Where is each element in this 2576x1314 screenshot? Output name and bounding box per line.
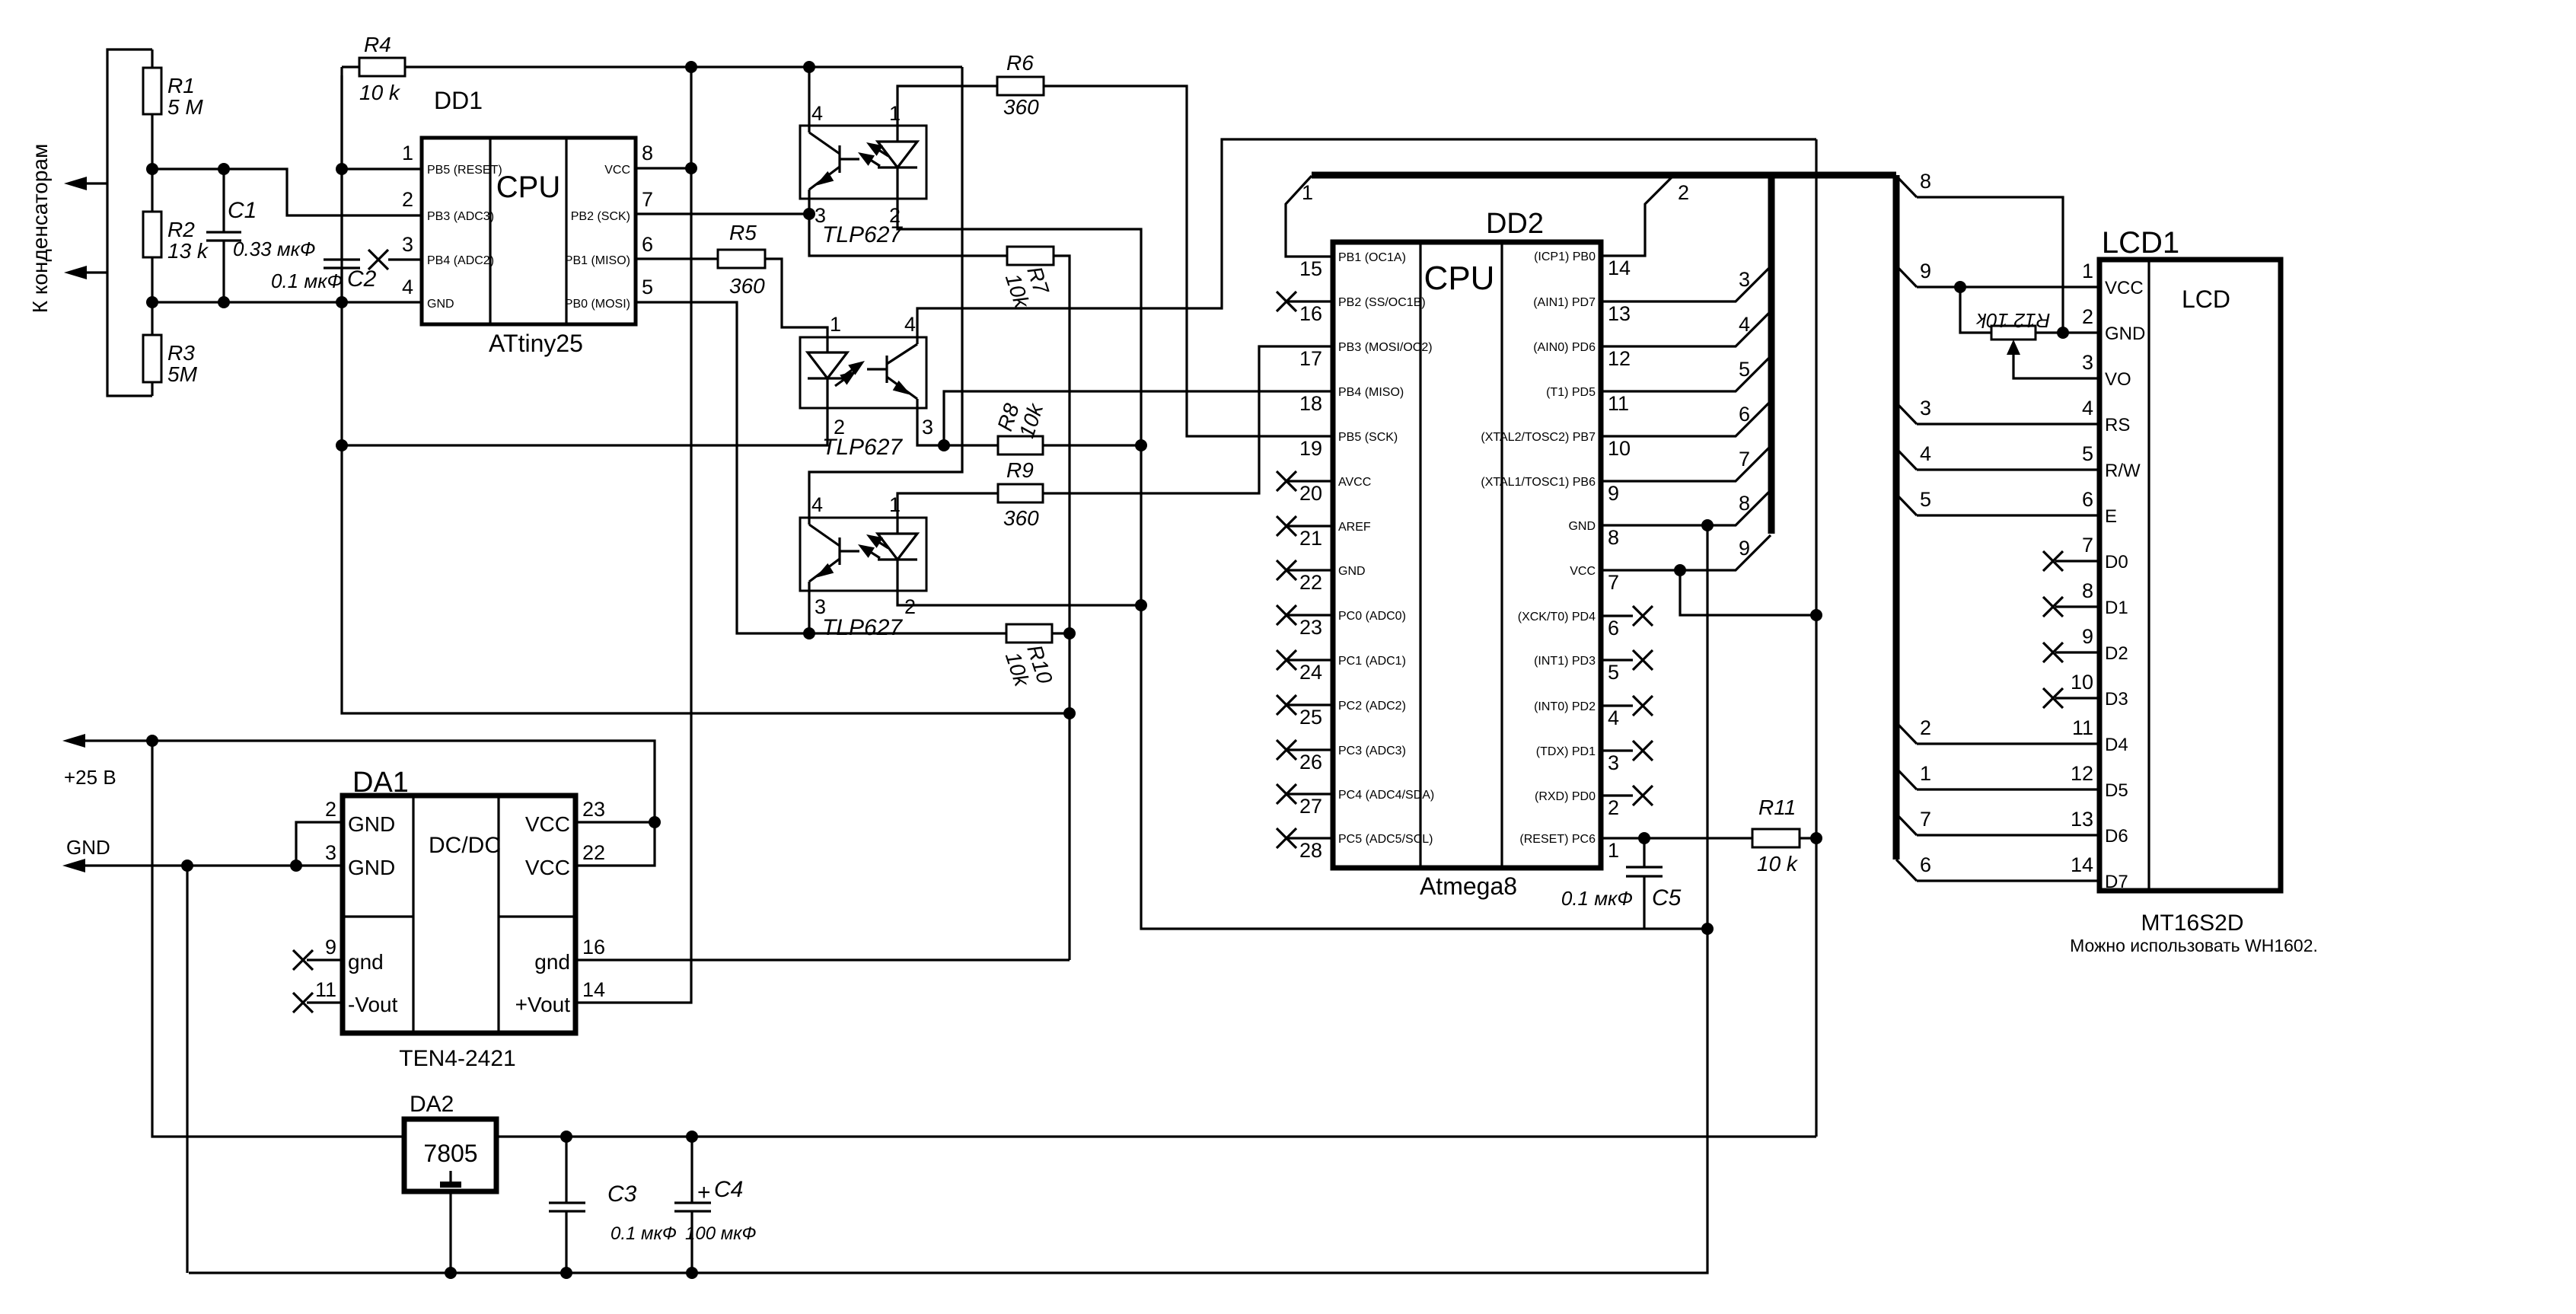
svg-text:16: 16 bbox=[1299, 302, 1322, 325]
svg-text:4: 4 bbox=[402, 276, 413, 298]
svg-text:DA1: DA1 bbox=[352, 767, 409, 799]
optocoupler U3 TLP627 bottom bbox=[800, 518, 926, 591]
svg-text:11: 11 bbox=[2072, 716, 2093, 739]
svg-text:DD2: DD2 bbox=[1486, 208, 1544, 240]
svg-text:PB3 (MOSI/OC2): PB3 (MOSI/OC2) bbox=[1338, 341, 1433, 354]
svg-text:5: 5 bbox=[1608, 661, 1619, 684]
wire DA1 gnd16 to opto pulldown net bbox=[575, 958, 1070, 961]
node +5V riser junction bbox=[1810, 609, 1822, 621]
svg-text:4: 4 bbox=[811, 493, 823, 516]
svg-text:8: 8 bbox=[1608, 526, 1619, 549]
svg-text:C3: C3 bbox=[607, 1182, 637, 1207]
wire opto1 pin2 to ground riser bbox=[897, 199, 1707, 929]
bus tap 9 to LCD bbox=[1896, 266, 1917, 287]
svg-text:1: 1 bbox=[1302, 181, 1313, 204]
svg-text:2: 2 bbox=[1608, 796, 1619, 819]
potentiometer R12 10k bbox=[1954, 281, 1966, 293]
svg-text:3: 3 bbox=[1739, 268, 1750, 291]
svg-text:9: 9 bbox=[325, 936, 336, 958]
svg-text:(ICP1) PB0: (ICP1) PB0 bbox=[1534, 250, 1596, 263]
wire opto2 pin2 LED cathode to sensor ground bbox=[342, 408, 827, 445]
node C3 top bbox=[560, 1131, 572, 1143]
svg-text:28: 28 bbox=[1299, 839, 1322, 862]
svg-text:D0: D0 bbox=[2105, 552, 2128, 572]
wire arrow К конденсаторам upper bbox=[84, 182, 107, 184]
svg-text:+25 В: +25 В bbox=[64, 766, 116, 789]
svg-text:(INT0) PD2: (INT0) PD2 bbox=[1534, 700, 1596, 713]
IC DD1 ATtiny25 block bbox=[422, 138, 636, 324]
svg-text:13: 13 bbox=[1608, 302, 1631, 325]
svg-text:ATtiny25: ATtiny25 bbox=[489, 330, 583, 357]
svg-text:8: 8 bbox=[1920, 170, 1931, 193]
svg-text:7: 7 bbox=[1608, 571, 1619, 594]
svg-text:5: 5 bbox=[642, 276, 653, 298]
wire DA1 pin 23 VCC bbox=[575, 821, 655, 823]
svg-text:PC4 (ADC4/SDA): PC4 (ADC4/SDA) bbox=[1338, 789, 1434, 802]
svg-text:3: 3 bbox=[922, 416, 933, 439]
DD1 pin 5 PB0 (MOSI) bbox=[636, 302, 809, 633]
svg-text:0.1 мкФ: 0.1 мкФ bbox=[1561, 887, 1633, 910]
wire tap 1 to LCD D5 bbox=[1917, 788, 2099, 790]
svg-text:13: 13 bbox=[2071, 808, 2093, 831]
svg-text:(AIN0) PD6: (AIN0) PD6 bbox=[1533, 341, 1596, 354]
svg-text:CPU: CPU bbox=[1424, 260, 1495, 297]
node opto2 emitter / MISO riser junction bbox=[938, 439, 950, 451]
bus tap 6 from DD2 right bbox=[1601, 401, 1771, 436]
svg-text:GND: GND bbox=[1338, 565, 1366, 578]
bus top horizontal bbox=[1312, 172, 1896, 179]
svg-text:(INT1) PD3: (INT1) PD3 bbox=[1534, 655, 1596, 668]
wire DD2 VCC to +5V riser bbox=[1680, 570, 1816, 615]
capacitor C2 bbox=[340, 75, 343, 260]
svg-text:PB5 (RESET): PB5 (RESET) bbox=[427, 164, 502, 177]
svg-text:D5: D5 bbox=[2105, 780, 2128, 801]
svg-text:RS: RS bbox=[2105, 415, 2130, 435]
wire tap 6 to LCD D7 bbox=[1917, 879, 2099, 882]
wire R5 to opto2 pin 1 bbox=[765, 259, 827, 337]
svg-text:1: 1 bbox=[1608, 839, 1619, 862]
node sensor gnd opto2 run bbox=[336, 439, 348, 451]
svg-text:360: 360 bbox=[729, 274, 765, 298]
capacitor C4 electrolytic bbox=[690, 1137, 693, 1203]
bus tap 4 to LCD bbox=[1896, 448, 1917, 470]
wire R10 leads bbox=[809, 632, 1006, 634]
svg-text:7: 7 bbox=[2082, 534, 2093, 557]
wire DA1 pin 2 GND loop bbox=[296, 822, 343, 866]
svg-text:D6: D6 bbox=[2105, 826, 2128, 847]
wire R9 right to DD2 pin 17 bbox=[1043, 346, 1333, 493]
svg-text:DA2: DA2 bbox=[410, 1092, 454, 1117]
svg-text:Можно использовать WH1602.: Можно использовать WH1602. bbox=[2070, 936, 2318, 955]
node opto3 emitter / MOSI junction bbox=[803, 627, 815, 639]
svg-text:13 k: 13 k bbox=[167, 239, 209, 263]
node R10 right junction bbox=[1063, 627, 1076, 639]
svg-text:26: 26 bbox=[1299, 751, 1322, 773]
svg-text:1: 1 bbox=[402, 142, 413, 164]
IC DA2 7805 block bbox=[404, 1119, 496, 1191]
svg-text:R12 10k: R12 10k bbox=[1975, 309, 2051, 332]
node sensor-ground junction riser bbox=[1063, 707, 1076, 719]
resistor R10 bbox=[1006, 624, 1052, 643]
svg-text:14: 14 bbox=[2071, 853, 2093, 876]
svg-text:0.1 мкФ: 0.1 мкФ bbox=[611, 1223, 677, 1244]
wire opto1 pin3 emitter to R7 (SCK node) bbox=[809, 199, 1007, 256]
svg-text:9: 9 bbox=[1608, 482, 1619, 505]
svg-text:1: 1 bbox=[889, 102, 901, 125]
capacitor C5 bbox=[1643, 838, 1645, 867]
wire +25V to 7805 input bbox=[152, 741, 404, 1137]
resistor R6 bbox=[997, 77, 1044, 95]
svg-text:LCD: LCD bbox=[2182, 285, 2230, 313]
svg-text:23: 23 bbox=[1299, 616, 1322, 639]
svg-text:VCC: VCC bbox=[604, 164, 630, 177]
svg-text:PC3 (ADC3): PC3 (ADC3) bbox=[1338, 745, 1406, 757]
capacitor C1 bbox=[222, 169, 225, 232]
svg-text:VCC: VCC bbox=[525, 812, 570, 836]
svg-text:23: 23 bbox=[582, 798, 605, 821]
svg-text:R6: R6 bbox=[1006, 51, 1034, 75]
svg-text:-Vout: -Vout bbox=[348, 993, 398, 1016]
node A junction R1-R2 bbox=[146, 163, 158, 175]
wire tap 5 to LCD E bbox=[1917, 514, 2099, 516]
resistor R2 bbox=[143, 212, 161, 257]
svg-text:R11: R11 bbox=[1758, 796, 1796, 819]
svg-text:LCD1: LCD1 bbox=[2102, 226, 2179, 260]
svg-text:10 k: 10 k bbox=[1757, 852, 1799, 875]
svg-text:2: 2 bbox=[325, 798, 336, 821]
svg-text:TLP627: TLP627 bbox=[822, 222, 903, 247]
svg-text:18: 18 bbox=[1299, 392, 1322, 415]
svg-text:AVCC: AVCC bbox=[1338, 476, 1371, 489]
svg-text:3: 3 bbox=[1608, 751, 1619, 774]
wire X mark DD1 pin 3 not connected bbox=[388, 258, 422, 260]
svg-text:2: 2 bbox=[1920, 716, 1931, 739]
wire +25V feed bbox=[82, 739, 152, 742]
svg-text:15: 15 bbox=[1299, 257, 1322, 280]
svg-text:gnd: gnd bbox=[534, 950, 570, 974]
IC DD2 Atmega8 block bbox=[1333, 242, 1601, 868]
wire opto3 pin2 LED cathode to ground riser bbox=[897, 589, 1141, 605]
DD1 pin 8 VCC bbox=[636, 167, 691, 169]
svg-text:(T1) PD5: (T1) PD5 bbox=[1546, 386, 1596, 399]
wire R6 to DD2 pin 19 SCK bbox=[1044, 86, 1333, 436]
bus tap 4 from DD2 right bbox=[1601, 311, 1771, 346]
wire opto2 pin4 collector to VCC net bbox=[917, 139, 1816, 337]
wire R7 right to pulldown riser bbox=[1054, 256, 1070, 960]
resistor R8 bbox=[998, 436, 1043, 454]
svg-text:R9: R9 bbox=[1006, 458, 1034, 482]
svg-text:TEN4-2421: TEN4-2421 bbox=[399, 1046, 515, 1071]
wire 7805 ground stub bbox=[449, 1191, 451, 1273]
svg-text:(RESET) PC6: (RESET) PC6 bbox=[1519, 833, 1596, 846]
svg-text:GND: GND bbox=[66, 836, 110, 859]
svg-text:12: 12 bbox=[1608, 347, 1631, 370]
node +25V junction bbox=[146, 735, 158, 747]
svg-text:R3: R3 bbox=[167, 341, 195, 365]
resistor R7 bbox=[1007, 247, 1054, 265]
svg-text:22: 22 bbox=[582, 841, 605, 864]
bus tap 6 to LCD bbox=[1896, 860, 1917, 881]
svg-text:3: 3 bbox=[402, 233, 413, 256]
svg-text:PB1 (MISO): PB1 (MISO) bbox=[565, 254, 630, 267]
svg-text:0.33 мкФ: 0.33 мкФ bbox=[233, 238, 316, 260]
node C5 top junction bbox=[1638, 832, 1650, 844]
wire opto1 pin4 to R4 line bbox=[808, 67, 810, 126]
wire node B to DD1 pin 4 GND bbox=[152, 301, 422, 303]
resistor R9 bbox=[998, 484, 1043, 502]
node DA1 VCC pin23 junction bbox=[649, 816, 661, 828]
bus tap 1 to LCD bbox=[1896, 768, 1917, 789]
wire +5V rail from 7805 bbox=[496, 1135, 1816, 1137]
wire opto3 pin4 collector to R4 net riser bbox=[809, 67, 962, 518]
svg-text:360: 360 bbox=[1003, 95, 1039, 119]
svg-text:C2: C2 bbox=[347, 266, 377, 292]
bus tap 1 to DD2 pin 15 bbox=[1286, 176, 1333, 257]
wire opto1 pin1 to R6 bbox=[897, 86, 997, 126]
svg-text:GND: GND bbox=[348, 812, 395, 836]
svg-text:VCC: VCC bbox=[525, 856, 570, 879]
svg-text:6: 6 bbox=[642, 233, 653, 256]
svg-text:27: 27 bbox=[1299, 795, 1322, 818]
svg-text:PB2 (SS/OC1B): PB2 (SS/OC1B) bbox=[1338, 296, 1426, 309]
svg-text:7: 7 bbox=[1920, 808, 1931, 831]
svg-text:R1: R1 bbox=[167, 74, 195, 97]
svg-text:8: 8 bbox=[2082, 579, 2093, 602]
svg-text:(XCK/T0) PD4: (XCK/T0) PD4 bbox=[1518, 611, 1596, 624]
svg-text:PC1 (ADC1): PC1 (ADC1) bbox=[1338, 655, 1406, 668]
LCD1 MT16S2D block bbox=[2099, 260, 2281, 891]
svg-text:2: 2 bbox=[1678, 181, 1689, 204]
wire tap 4 to LCD R/W bbox=[1917, 468, 2099, 470]
bus tap 3 to LCD bbox=[1896, 403, 1917, 424]
svg-text:10 k: 10 k bbox=[359, 81, 401, 104]
svg-text:4: 4 bbox=[1739, 313, 1750, 336]
svg-text:21: 21 bbox=[1299, 527, 1322, 550]
bus tap 2 to DD2 pin 14 bbox=[1601, 176, 1673, 256]
svg-text:AREF: AREF bbox=[1338, 521, 1371, 534]
bus vertical right of DD2 bbox=[1768, 175, 1775, 534]
wire bracket to external capacitors bbox=[107, 49, 152, 396]
wire tap 9 to LCD VCC bbox=[1917, 285, 2099, 288]
wire MISO riser to DD2 pin 18 bbox=[944, 391, 1333, 445]
svg-text:10: 10 bbox=[1608, 437, 1631, 460]
svg-text:8: 8 bbox=[1739, 492, 1750, 515]
svg-text:11: 11 bbox=[1608, 392, 1629, 415]
optocoupler U2 TLP627 middle bbox=[800, 337, 926, 408]
wire tap 8 to LCD GND via R12 node bbox=[1917, 197, 2063, 333]
svg-text:9: 9 bbox=[1920, 260, 1931, 282]
svg-text:+: + bbox=[697, 1180, 711, 1205]
wire arrow К конденсаторам lower bbox=[84, 271, 107, 273]
svg-text:2: 2 bbox=[904, 595, 916, 618]
svg-text:+Vout: +Vout bbox=[515, 993, 571, 1016]
bus tap 3 from DD2 right bbox=[1601, 266, 1771, 301]
svg-text:360: 360 bbox=[1003, 506, 1039, 530]
svg-text:25: 25 bbox=[1299, 706, 1322, 729]
svg-text:3: 3 bbox=[2082, 351, 2093, 374]
svg-text:100 мкФ: 100 мкФ bbox=[685, 1223, 757, 1244]
svg-text:4: 4 bbox=[1608, 706, 1619, 729]
svg-text:8: 8 bbox=[642, 142, 653, 164]
optocoupler U1 TLP627 top bbox=[800, 126, 926, 199]
svg-text:3: 3 bbox=[1920, 397, 1931, 419]
svg-text:К конденсаторам: К конденсаторам bbox=[28, 144, 52, 314]
svg-text:5M: 5M bbox=[167, 362, 198, 386]
svg-text:14: 14 bbox=[582, 978, 605, 1001]
resistor R1 bbox=[151, 49, 153, 68]
node DD2 GND wire junction bbox=[1701, 519, 1714, 531]
wire GND feed bbox=[82, 864, 187, 866]
svg-text:5: 5 bbox=[1739, 358, 1750, 381]
svg-text:R2: R2 bbox=[167, 218, 195, 241]
svg-text:PC0 (ADC0): PC0 (ADC0) bbox=[1338, 610, 1406, 623]
svg-text:4: 4 bbox=[2082, 397, 2093, 419]
wire opto2 pin3 emitter to R8 bbox=[917, 408, 998, 445]
node R4/opto1 pin4 junction bbox=[803, 61, 815, 73]
svg-text:PB1 (OC1A): PB1 (OC1A) bbox=[1338, 251, 1406, 264]
node DD2 VCC wire junction bbox=[1674, 564, 1686, 576]
svg-text:MT16S2D: MT16S2D bbox=[2141, 911, 2243, 936]
svg-text:gnd: gnd bbox=[348, 950, 384, 974]
node C4 bottom bbox=[686, 1267, 698, 1279]
svg-text:D1: D1 bbox=[2105, 598, 2128, 618]
wire tap 2 to LCD D4 bbox=[1917, 742, 2099, 745]
node DA1 GND junction bbox=[290, 860, 302, 872]
svg-text:5 М: 5 М bbox=[167, 95, 203, 119]
bus tap 2 to LCD bbox=[1896, 722, 1917, 744]
node sensor gnd C2 top bbox=[336, 296, 348, 308]
capacitor C3 bbox=[565, 1137, 567, 1203]
svg-text:GND: GND bbox=[427, 298, 454, 311]
svg-text:9: 9 bbox=[1739, 537, 1750, 560]
svg-text:1: 1 bbox=[889, 493, 901, 516]
svg-text:17: 17 bbox=[1299, 347, 1322, 370]
svg-text:D3: D3 bbox=[2105, 689, 2128, 710]
svg-text:DC/DC: DC/DC bbox=[429, 833, 501, 858]
svg-text:PB4 (MISO): PB4 (MISO) bbox=[1338, 386, 1404, 399]
node GND junction left bbox=[181, 860, 193, 872]
svg-text:(RXD) PD0: (RXD) PD0 bbox=[1535, 790, 1596, 803]
DD1 pin 1 PB5 (RESET) bbox=[342, 167, 422, 170]
svg-text:1: 1 bbox=[2082, 260, 2093, 282]
svg-text:VO: VO bbox=[2105, 369, 2131, 390]
bus tap 9 from DD2 right bbox=[1601, 535, 1771, 570]
svg-text:R4: R4 bbox=[364, 33, 391, 56]
svg-text:0.1 мкФ: 0.1 мкФ bbox=[271, 269, 343, 292]
svg-text:6: 6 bbox=[1608, 617, 1619, 639]
svg-text:(XTAL2/TOSC2) PB7: (XTAL2/TOSC2) PB7 bbox=[1481, 431, 1596, 444]
node DD2 ground rail junction bbox=[1701, 923, 1714, 935]
wire DA1 +Vout to sensor VCC riser bbox=[575, 741, 691, 1003]
svg-text:C1: C1 bbox=[228, 198, 257, 223]
svg-text:11: 11 bbox=[315, 978, 336, 1001]
svg-text:4: 4 bbox=[904, 313, 916, 336]
bus tap 7 from DD2 right bbox=[1601, 446, 1771, 481]
svg-text:C5: C5 bbox=[1652, 885, 1682, 911]
wire opto3 pin1 to R9 bbox=[897, 493, 998, 518]
bus tap 8 from DD2 right bbox=[1601, 490, 1771, 525]
svg-text:16: 16 bbox=[582, 936, 605, 958]
svg-text:R5: R5 bbox=[729, 221, 757, 244]
bus tap 7 to LCD bbox=[1896, 814, 1917, 835]
svg-text:GND: GND bbox=[348, 856, 395, 879]
svg-text:5: 5 bbox=[1920, 488, 1931, 511]
resistor R11 bbox=[1601, 837, 1752, 839]
bus vertical at LCD bbox=[1893, 175, 1900, 860]
svg-text:1: 1 bbox=[830, 313, 841, 336]
svg-text:R/W: R/W bbox=[2105, 461, 2141, 481]
svg-text:TLP627: TLP627 bbox=[822, 615, 903, 640]
node C4 top bbox=[686, 1131, 698, 1143]
svg-text:20: 20 bbox=[1299, 482, 1322, 505]
svg-text:CPU: CPU bbox=[496, 171, 560, 204]
svg-text:C4: C4 bbox=[714, 1177, 743, 1202]
svg-text:19: 19 bbox=[1299, 437, 1322, 460]
svg-text:PB2 (SCK): PB2 (SCK) bbox=[571, 210, 630, 223]
node C3 bottom bbox=[560, 1267, 572, 1279]
wire sensor ground bottom run bbox=[342, 67, 1070, 713]
svg-text:D7: D7 bbox=[2105, 872, 2128, 892]
node opto pin2 ground riser junction bbox=[1135, 599, 1147, 611]
svg-text:7805: 7805 bbox=[423, 1140, 477, 1167]
svg-text:VCC: VCC bbox=[2105, 278, 2144, 298]
svg-text:PB0 (MOSI): PB0 (MOSI) bbox=[565, 298, 630, 311]
svg-text:D2: D2 bbox=[2105, 643, 2128, 664]
svg-text:3: 3 bbox=[325, 841, 336, 864]
svg-text:(AIN1) PD7: (AIN1) PD7 bbox=[1533, 296, 1596, 309]
wire tap 7 to LCD D6 bbox=[1917, 834, 2099, 836]
DD1 pin 6 PB1 (MISO) bbox=[636, 257, 718, 260]
svg-text:7: 7 bbox=[642, 188, 653, 211]
svg-text:2: 2 bbox=[402, 188, 413, 211]
svg-text:6: 6 bbox=[1920, 853, 1931, 876]
DD1 pin 7 PB2 (SCK) bbox=[636, 212, 809, 215]
node opto1 cathode riser junction R8 bbox=[1135, 439, 1147, 451]
svg-text:DD1: DD1 bbox=[434, 87, 483, 114]
svg-text:4: 4 bbox=[1920, 442, 1931, 465]
svg-text:10: 10 bbox=[2071, 671, 2093, 694]
svg-text:2: 2 bbox=[2082, 305, 2093, 328]
wire riser to DD1 VCC pin 8 bbox=[690, 67, 692, 168]
svg-text:(XTAL1/TOSC1) PB6: (XTAL1/TOSC1) PB6 bbox=[1481, 476, 1596, 489]
resistor R4 bbox=[342, 65, 359, 68]
node B junction R2-R3 bbox=[146, 296, 158, 308]
svg-text:E: E bbox=[2105, 506, 2117, 527]
svg-text:PB4 (ADC2): PB4 (ADC2) bbox=[427, 254, 494, 267]
svg-text:GND: GND bbox=[1568, 520, 1596, 533]
wire tap 3 to LCD RS bbox=[1917, 423, 2099, 425]
wire R4 line to opto1 collector and corner bbox=[691, 65, 962, 68]
svg-text:D4: D4 bbox=[2105, 735, 2128, 755]
resistor R5 bbox=[718, 250, 765, 268]
svg-text:24: 24 bbox=[1299, 661, 1322, 684]
node R4/VCC riser junction bbox=[685, 61, 697, 73]
bus tap 8 to LCD bbox=[1896, 176, 1917, 197]
svg-text:9: 9 bbox=[2082, 625, 2093, 648]
svg-text:4: 4 bbox=[811, 102, 823, 125]
svg-text:PB5 (SCK): PB5 (SCK) bbox=[1338, 431, 1398, 444]
wire R8 right to ground riser bbox=[1043, 444, 1141, 446]
svg-text:GND: GND bbox=[2105, 324, 2145, 344]
svg-text:PC2 (ADC2): PC2 (ADC2) bbox=[1338, 700, 1406, 713]
wire DD2 ground down to bottom rail bbox=[189, 929, 1707, 1273]
wire opto3 pin3 emitter junction bbox=[808, 591, 810, 633]
svg-text:5: 5 bbox=[2082, 442, 2093, 465]
svg-text:PC5 (ADC5/SCL): PC5 (ADC5/SCL) bbox=[1338, 833, 1433, 846]
svg-text:TLP627: TLP627 bbox=[822, 435, 903, 460]
IC DA1 TEN4-2421 block bbox=[343, 796, 575, 1033]
node 7805 gnd on bottom rail bbox=[445, 1267, 457, 1279]
